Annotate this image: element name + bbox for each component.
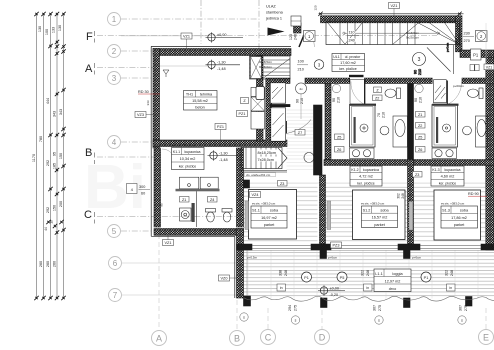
LAYER: walls (151, 14, 494, 308)
svg-text:kv. via +260,0 cm: kv. via +260,0 cm (172, 143, 196, 147)
svg-text:300: 300 (139, 185, 145, 189)
K1.1 vanity counter (176, 177, 220, 227)
grid bubble 1 (108, 13, 121, 26)
ULAZ text (265, 5, 284, 21)
shaft upper (251, 57, 262, 79)
svg-text:ULAZ: ULAZ (266, 5, 276, 9)
label box small entry (291, 16, 301, 31)
svg-text:Z5: Z5 (418, 135, 422, 139)
svg-text:Z5: Z5 (337, 135, 341, 139)
svg-text:VZ1: VZ1 (391, 4, 398, 8)
sliding panel S1.1 left (245, 201, 249, 230)
tick marks (34, 12, 65, 300)
bottom bubble E (479, 330, 494, 345)
K1.3 shower (432, 104, 459, 147)
circle marker K1.2 (332, 84, 340, 92)
label box Z TH1 (241, 98, 249, 104)
loggia top edge line (244, 249, 494, 251)
bottom bubble D (315, 330, 330, 345)
svg-text:260: 260 (46, 261, 50, 267)
svg-text:95: 95 (160, 203, 164, 207)
label box Z1 K1.1 (180, 197, 190, 203)
dim 110/240 stairs (348, 31, 359, 43)
P5 circle 2 (337, 272, 347, 282)
K1.2 toilet (385, 88, 401, 99)
post loggia 1 (320, 245, 327, 259)
door leaf corridor (286, 121, 288, 134)
vertical axis near TH1 (200, 0, 202, 44)
door arc K1.3 (447, 82, 461, 105)
svg-text:12,97 m2: 12,97 m2 (385, 279, 401, 283)
svg-text:307: 307 (373, 305, 377, 311)
svg-text:RD 30: RD 30 (138, 90, 149, 94)
duct shaft lower (271, 108, 286, 141)
room table K1.1 (172, 143, 205, 169)
dim 100/210 corridor (297, 60, 308, 72)
svg-text:4,72 m2: 4,72 m2 (359, 175, 373, 179)
svg-text:beton: beton (195, 105, 205, 109)
stair flight down mid (241, 147, 314, 172)
outer face line left (150, 47, 152, 237)
svg-text:Z3: Z3 (280, 182, 284, 186)
bed S1.2 (353, 190, 406, 240)
wall corridor left (266, 82, 272, 142)
K1.3 toilet (468, 88, 484, 99)
grid tick A (94, 63, 96, 75)
svg-text:343: 343 (59, 109, 63, 115)
bed S1.3 (434, 190, 481, 240)
tiny deck texts (247, 256, 422, 260)
vertical axis C bottom (267, 308, 269, 329)
svg-text:240: 240 (294, 34, 298, 40)
tiny text box vis etaze2 (245, 173, 276, 177)
dim 338/248 loggia1 (279, 270, 289, 276)
room table K1.3 (431, 166, 464, 186)
svg-text:parket: parket (264, 223, 275, 227)
grid bubble 3 (108, 72, 121, 85)
svg-text:4x: 4x (299, 87, 303, 91)
svg-text:9x18,5cm: 9x18,5cm (406, 31, 420, 35)
svg-text:302: 302 (397, 193, 401, 199)
svg-text:1170: 1170 (32, 154, 36, 162)
label box Z7 (295, 130, 305, 136)
room table S1.2 (361, 202, 398, 228)
door leaf K1.2 (364, 81, 366, 105)
grid line B (97, 156, 155, 158)
label boxes right small (470, 23, 494, 71)
label box Z K1.2 door (374, 87, 382, 93)
svg-text:4: 4 (131, 188, 133, 192)
shaft boxes right of TH1 (251, 88, 265, 130)
svg-text:292: 292 (46, 160, 50, 166)
svg-text:-1,30: -1,30 (219, 151, 228, 155)
wall K1.1 bottom (154, 229, 244, 236)
svg-text:275: 275 (378, 305, 382, 311)
parquet floor soba S1.3 (414, 183, 486, 244)
svg-text:95: 95 (53, 152, 57, 156)
in box 1 (277, 284, 286, 291)
elevation texts (217, 33, 339, 297)
svg-text:p+0,5m: p+0,5m (247, 256, 258, 260)
svg-text:soba: soba (460, 209, 469, 213)
label box Z2 col (416, 123, 426, 129)
svg-text:60: 60 (141, 192, 145, 196)
sliding panel S1.2 right (409, 202, 413, 231)
label box PZ1 TH1 (215, 124, 226, 142)
svg-text:130: 130 (38, 26, 42, 32)
outer face line TH1 top (151, 46, 291, 48)
svg-text:10: 10 (50, 220, 54, 224)
circle marker K1.3 (415, 84, 423, 92)
svg-text:parket: parket (454, 223, 465, 227)
room table TH1 (184, 91, 218, 111)
svg-text:A: A (156, 333, 162, 343)
label box Z6 K1.2 (335, 147, 345, 153)
svg-text:294: 294 (288, 305, 292, 311)
LAYER: labels (135, 3, 494, 325)
wall entry door jamb (294, 23, 302, 33)
label box VZ4 (250, 192, 261, 198)
svg-text:2: 2 (112, 47, 117, 56)
grid line 3 (121, 77, 155, 79)
grid line A (97, 67, 155, 69)
svg-text:120: 120 (289, 34, 293, 40)
svg-text:210: 210 (382, 112, 386, 118)
svg-text:150: 150 (53, 205, 57, 211)
door number circle 3 (314, 60, 324, 70)
dim 90/210 corridor door (296, 98, 305, 104)
svg-text:UL1: UL1 (333, 55, 339, 59)
stair text down (257, 150, 279, 162)
svg-text:210: 210 (419, 97, 423, 103)
svg-text:K1.1: K1.1 (173, 150, 180, 154)
svg-text:Z2: Z2 (375, 96, 379, 100)
svg-text:7x28,0cm: 7x28,0cm (258, 158, 274, 162)
svg-text:185: 185 (53, 163, 57, 169)
dim 307/275 bottom3 (459, 305, 469, 311)
elevation marker -1,30 top (206, 60, 241, 70)
svg-text:9x29,0cm: 9x29,0cm (406, 36, 420, 40)
svg-text:90: 90 (332, 98, 336, 102)
wavy ground line (244, 296, 494, 301)
red RD30 line (138, 93, 160, 95)
svg-text:p+6cm: p+6cm (412, 256, 422, 260)
svg-text:Z6: Z6 (337, 148, 341, 152)
svg-text:Z6: Z6 (418, 148, 422, 152)
svg-text:210: 210 (337, 97, 341, 103)
ULAZ arrow (268, 28, 285, 36)
label box VZ0 (219, 275, 237, 281)
svg-text:-0,20: -0,20 (330, 293, 339, 297)
grid bubble 4 (108, 136, 121, 149)
svg-text:130: 130 (58, 25, 62, 31)
bottom bubble A (152, 331, 167, 346)
svg-text:17,86 m2: 17,86 m2 (451, 216, 467, 220)
svg-text:Z1: Z1 (418, 113, 422, 117)
K1.2 basin counter (393, 116, 408, 147)
stair text top (406, 31, 420, 40)
dim 294/275 bottom1 (288, 305, 298, 311)
door number circle 3b (413, 53, 426, 66)
svg-text:vis. etaže+261 cm: vis. etaže+261 cm (246, 173, 271, 177)
LAYER: axis lines (97, 0, 486, 330)
dim 90/210 K1.2 (332, 97, 341, 103)
wall top right jog (460, 50, 494, 58)
svg-text:in: in (366, 286, 369, 290)
K1.3 bidet (463, 126, 472, 135)
wall right edge (486, 58, 494, 251)
sill lines soba doors (252, 245, 481, 248)
svg-text:s: s (461, 319, 463, 323)
svg-text:soba: soba (380, 208, 389, 212)
svg-text:S1.2: S1.2 (363, 208, 371, 212)
svg-text:100: 100 (298, 60, 304, 64)
svg-text:338: 338 (279, 270, 283, 276)
red RD90 line (468, 195, 487, 197)
wall stair block top (321, 16, 460, 23)
svg-text:L1.1: L1.1 (375, 272, 382, 276)
svg-text:TH1: TH1 (186, 93, 193, 97)
svg-text:K1.2: K1.2 (351, 168, 358, 172)
svg-text:70: 70 (377, 113, 381, 117)
predprostor stripes (287, 108, 314, 173)
label box Z1 col (416, 112, 426, 118)
svg-text:Z2: Z2 (418, 124, 422, 128)
wall corridor-bathroom (266, 78, 494, 84)
stair main top (326, 22, 460, 45)
svg-text:P1: P1 (304, 276, 309, 280)
svg-text:P1: P1 (424, 276, 429, 280)
svg-text:248: 248 (401, 193, 405, 199)
K1.1 toilet 1 (206, 209, 216, 223)
svg-text:210: 210 (298, 68, 304, 72)
grid tick C (94, 212, 96, 224)
svg-text:-1,48: -1,48 (219, 158, 228, 162)
svg-text:210: 210 (418, 69, 422, 75)
dim 230/270 right (463, 32, 474, 44)
wall K1.1 right (237, 148, 244, 227)
door arc K1.2 (351, 82, 365, 105)
leader line elevation 0.00 (121, 35, 207, 37)
svg-text:275: 275 (464, 305, 468, 311)
svg-text:275: 275 (294, 305, 298, 311)
parquet floor soba S1.1 (244, 183, 318, 244)
label box VZ3 left (135, 112, 153, 118)
label box Z3 right (413, 172, 423, 178)
dark bar above K1.2 niche (349, 75, 364, 77)
svg-text:RD 90: RD 90 (468, 192, 479, 196)
svg-text:PZ3: PZ3 (333, 244, 340, 248)
svg-text:E: E (483, 332, 489, 342)
parquet floor soba S1.2 (324, 183, 408, 244)
duct K1.3 (434, 80, 447, 103)
svg-text:6: 6 (113, 259, 118, 268)
svg-text:Z4: Z4 (210, 198, 214, 202)
svg-text:248: 248 (450, 270, 454, 276)
post base 4 (466, 297, 473, 307)
vertical axis B bottom (236, 300, 238, 330)
label box PZ1 right (471, 49, 482, 60)
loggia left edge line (246, 250, 248, 298)
niche K1.2 door (350, 80, 364, 105)
K1.1 toilet 2 (222, 209, 232, 223)
chain numbers (32, 25, 63, 267)
label box PZ3 bottom (331, 242, 342, 248)
svg-text:150: 150 (59, 153, 63, 159)
svg-text:4: 4 (112, 138, 117, 147)
circle marker corridor (296, 83, 307, 119)
room table S1.3 (441, 202, 478, 229)
dimension chain lines (37, 13, 64, 298)
dim 307/275 bottom2 (373, 305, 383, 311)
svg-text:VZ1: VZ1 (183, 35, 190, 39)
svg-text:100: 100 (45, 29, 49, 35)
svg-text:kupaonica: kupaonica (185, 150, 201, 154)
wall stub S1.1 left (244, 180, 250, 188)
svg-text:16,97 m2: 16,97 m2 (261, 216, 277, 220)
svg-text:PZ1: PZ1 (217, 125, 224, 129)
svg-text:322: 322 (445, 270, 449, 276)
in box 3 (447, 284, 456, 291)
svg-text:133: 133 (52, 27, 56, 33)
label box Z4 K1.1 (208, 197, 218, 203)
svg-text:ev.vis. +383,0 cm: ev.vis. +383,0 cm (361, 202, 385, 206)
grid line 2 (121, 50, 155, 52)
ticks top wall (318, 12, 461, 16)
elevation marker loggia (318, 285, 345, 295)
K1.2 washer (350, 148, 375, 159)
wall K1.2 left (325, 84, 331, 160)
svg-text:A: A (85, 63, 93, 75)
K1.2 bidet (380, 126, 389, 135)
vertical axis A bottom (158, 234, 160, 330)
svg-text:B: B (85, 147, 92, 159)
wall mid vertical S1.1-S1.2 lower (320, 175, 326, 244)
s circle 4 (240, 313, 248, 321)
label box VZ1 top-left (181, 33, 192, 48)
duct shaft upper (270, 83, 285, 103)
svg-text:90: 90 (414, 70, 418, 74)
svg-text:Z1: Z1 (182, 198, 186, 202)
soba floor top edge (244, 182, 494, 184)
svg-text:p+0cm: p+0cm (446, 42, 450, 52)
dim 120/240 entry (289, 34, 298, 40)
s circle 2 (375, 316, 383, 324)
LAYER: interior (138, 22, 494, 302)
in box 2 (364, 284, 373, 291)
svg-text:B: B (234, 333, 240, 343)
label box VZ1 top (389, 3, 400, 17)
LAYER: floors (244, 183, 494, 299)
wall K1.1 left (154, 148, 161, 227)
svg-text:248: 248 (366, 270, 370, 276)
svg-text:PZ1: PZ1 (239, 112, 246, 116)
grid line C (97, 216, 243, 218)
dim 90/210 UL1 (414, 69, 423, 75)
svg-text:VZ3: VZ3 (137, 113, 144, 117)
svg-text:drvo: drvo (389, 287, 396, 291)
grid line 1 (121, 18, 258, 20)
grid line 7 (122, 294, 237, 296)
wall TH1 right (257, 56, 264, 142)
svg-text:8x18,25cm: 8x18,25cm (258, 151, 277, 155)
svg-text:ul. prostor: ul. prostor (345, 55, 361, 59)
wall TH1 left (153, 49, 160, 149)
LAYER: dims (32, 12, 474, 311)
grid line 5 (121, 230, 237, 232)
svg-text:±0,00: ±0,00 (217, 33, 226, 37)
svg-text:110: 110 (349, 31, 355, 35)
dim 302/248 soba (397, 193, 406, 199)
wall soba bottom segments (237, 244, 494, 250)
svg-text:200: 200 (59, 201, 63, 207)
svg-text:F: F (86, 31, 93, 43)
svg-text:307: 307 (459, 305, 463, 311)
grid bubble 6 (109, 257, 122, 270)
P1 circle 1 (302, 272, 312, 282)
svg-text:7: 7 (113, 291, 118, 300)
svg-text:240: 240 (349, 39, 355, 43)
svg-text:ker. pločice: ker. pločice (339, 67, 357, 71)
svg-text:15,58 m2: 15,58 m2 (192, 99, 208, 103)
svg-text:VZ0: VZ0 (221, 277, 228, 281)
svg-text:1: 1 (112, 15, 117, 24)
svg-text:parket: parket (374, 223, 385, 227)
bottom bubble B (230, 331, 245, 346)
svg-text:322: 322 (361, 270, 365, 276)
door box 2 right (476, 31, 488, 42)
K1.2 shower (350, 104, 377, 147)
svg-text:230: 230 (464, 32, 470, 36)
s circle 1 (291, 316, 299, 324)
door arc corridor (287, 120, 312, 134)
svg-text:780: 780 (39, 136, 43, 142)
bottom bubble C (261, 330, 276, 345)
rail line UL1 (453, 45, 455, 74)
svg-text:210: 210 (300, 98, 304, 104)
svg-text:kupaonica: kupaonica (445, 168, 461, 172)
svg-text:44: 44 (44, 227, 48, 231)
label box VZ1 bottom-left (163, 234, 174, 246)
label box Z5 col (416, 134, 426, 140)
s circle 3 (458, 316, 466, 324)
K1.3 basin counter (476, 116, 488, 147)
wall mid vertical S1.2-S1.3 lower (408, 160, 414, 245)
svg-text:±0,00: ±0,00 (330, 286, 339, 290)
grid line 6 (122, 262, 237, 264)
grid bubble 7 (109, 289, 122, 302)
P1 circle 3 (421, 272, 431, 282)
svg-text:260: 260 (53, 261, 57, 267)
vertical axis D bottom (321, 310, 323, 329)
svg-text:tehnika: tehnika (200, 93, 213, 97)
stair flight right of TH1 (250, 56, 291, 79)
svg-text:S1.1: S1.1 (252, 209, 260, 213)
svg-text:soba: soba (270, 209, 279, 213)
wall TH1 top (153, 49, 291, 56)
svg-text:loggia: loggia (392, 272, 403, 276)
svg-text:9x18,5cm: 9x18,5cm (259, 60, 273, 64)
svg-text:VZ1: VZ1 (486, 66, 492, 70)
vertical axis at entry (258, 0, 260, 52)
wall mid vertical S1.1-S1.2 upper (314, 105, 323, 175)
room table UL1 (332, 54, 365, 72)
wall stair block right (456, 16, 463, 52)
dim 300/60 K1.1 (127, 184, 151, 196)
svg-text:5: 5 (112, 227, 117, 236)
label box Z5 K1.2 (335, 134, 345, 140)
svg-text:ker. pločice: ker. pločice (357, 182, 375, 186)
